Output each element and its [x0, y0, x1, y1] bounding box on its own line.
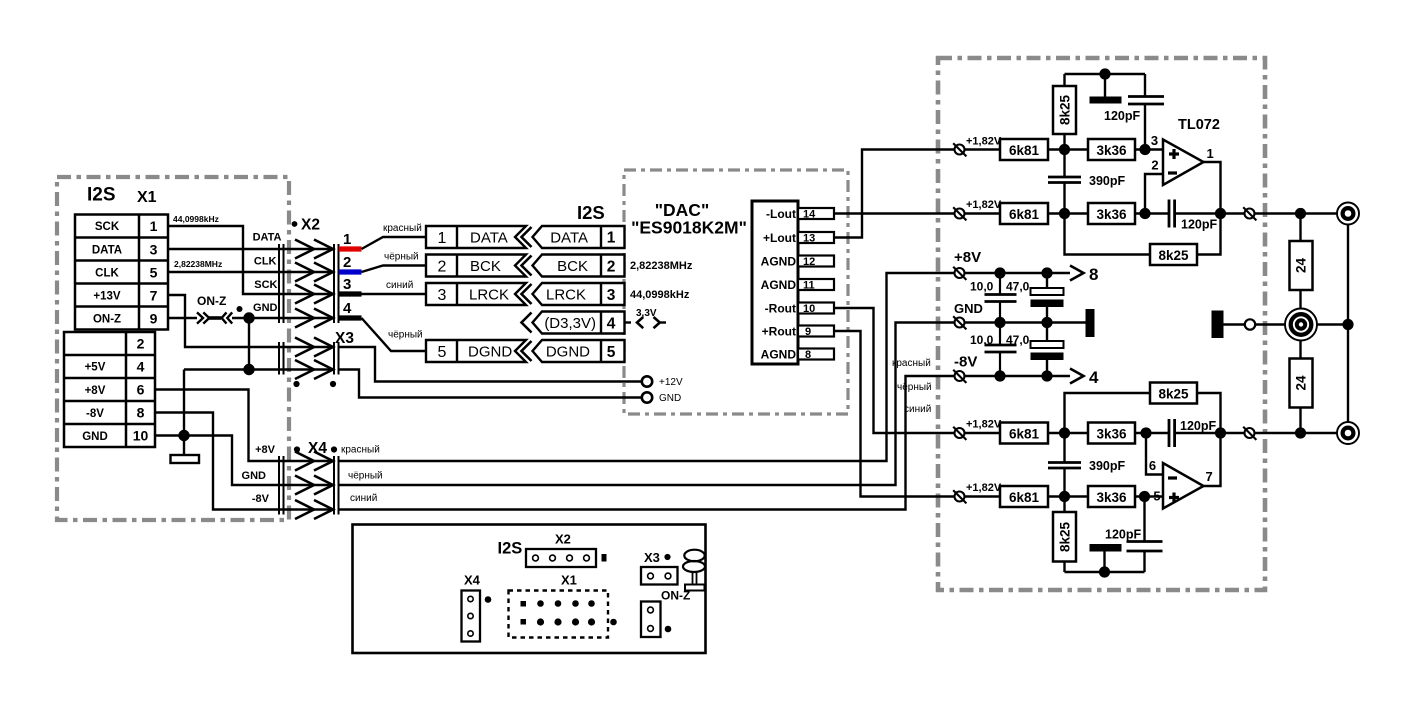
- svg-text:X3: X3: [335, 330, 354, 347]
- svg-text:2: 2: [137, 336, 145, 352]
- svg-text:3: 3: [607, 287, 616, 304]
- svg-text:+1,82V: +1,82V: [966, 419, 1002, 431]
- svg-text:GND: GND: [253, 302, 278, 314]
- svg-text:2,82238MHz: 2,82238MHz: [174, 259, 222, 269]
- svg-text:DATA: DATA: [550, 230, 588, 247]
- svg-text:I2S: I2S: [87, 185, 116, 206]
- svg-text:44,0998kHz: 44,0998kHz: [630, 289, 690, 301]
- svg-text:X4: X4: [308, 440, 327, 457]
- svg-text:2: 2: [343, 254, 351, 271]
- svg-text:24: 24: [1294, 375, 1309, 391]
- svg-text:DATA: DATA: [470, 230, 508, 247]
- svg-text:(D3,3V): (D3,3V): [544, 315, 596, 332]
- svg-text:3k36: 3k36: [1096, 490, 1127, 505]
- svg-text:390pF: 390pF: [1089, 459, 1125, 473]
- svg-text:5: 5: [1153, 489, 1160, 504]
- svg-text:+8V: +8V: [85, 385, 106, 397]
- svg-text:4: 4: [1089, 368, 1099, 387]
- svg-text:SCK: SCK: [95, 221, 120, 233]
- svg-text:120pF: 120pF: [1180, 419, 1216, 433]
- svg-text:6k81: 6k81: [1009, 143, 1040, 158]
- svg-text:1: 1: [150, 218, 158, 234]
- svg-text:6k81: 6k81: [1009, 490, 1040, 505]
- svg-text:+8V: +8V: [954, 249, 981, 266]
- svg-text:чёрный: чёрный: [348, 471, 383, 482]
- svg-text:6: 6: [1149, 458, 1156, 473]
- svg-text:чёрный: чёрный: [388, 330, 423, 341]
- svg-text:8: 8: [1089, 265, 1098, 284]
- svg-text:DATA: DATA: [92, 245, 122, 257]
- svg-text:X4: X4: [464, 573, 481, 588]
- svg-text:5: 5: [150, 265, 158, 281]
- svg-text:1: 1: [343, 231, 351, 248]
- svg-text:-Rout: -Rout: [765, 302, 796, 316]
- svg-text:3: 3: [343, 276, 351, 293]
- svg-text:5: 5: [607, 344, 616, 361]
- svg-text:AGND: AGND: [761, 348, 797, 362]
- svg-text:12: 12: [803, 256, 815, 268]
- svg-text:8: 8: [805, 349, 811, 361]
- svg-text:ON-Z: ON-Z: [93, 314, 121, 326]
- svg-text:I2S: I2S: [577, 202, 605, 223]
- svg-text:6k81: 6k81: [1009, 427, 1040, 442]
- svg-text:+13V: +13V: [93, 291, 121, 303]
- svg-text:2: 2: [438, 259, 447, 276]
- svg-text:120pF: 120pF: [1104, 109, 1140, 123]
- svg-text:-8V: -8V: [252, 493, 270, 505]
- svg-text:3: 3: [438, 287, 447, 304]
- svg-text:ON-Z: ON-Z: [661, 589, 690, 603]
- svg-text:SCK: SCK: [254, 279, 277, 291]
- svg-text:47,0: 47,0: [1006, 280, 1030, 294]
- svg-text:чёрный: чёрный: [897, 382, 932, 393]
- svg-text:+Lout: +Lout: [763, 231, 796, 245]
- svg-text:LRCK: LRCK: [469, 287, 509, 304]
- svg-text:8k25: 8k25: [1058, 521, 1073, 552]
- svg-text:24: 24: [1294, 258, 1309, 274]
- svg-text:X2: X2: [555, 532, 571, 547]
- svg-text:BCK: BCK: [470, 258, 501, 275]
- svg-text:8k25: 8k25: [1158, 248, 1189, 263]
- svg-text:3: 3: [150, 242, 158, 258]
- svg-text:+8V: +8V: [255, 444, 276, 456]
- svg-text:5: 5: [438, 344, 447, 361]
- svg-text:7: 7: [1206, 469, 1213, 484]
- svg-text:+5V: +5V: [85, 362, 106, 374]
- svg-text:синий: синий: [904, 404, 931, 415]
- svg-text:синий: синий: [386, 280, 413, 291]
- svg-text:ON-Z: ON-Z: [197, 294, 226, 308]
- svg-text:1: 1: [1207, 146, 1214, 161]
- svg-text:DATA: DATA: [253, 232, 282, 244]
- svg-text:AGND: AGND: [761, 255, 797, 269]
- svg-text:красный: красный: [892, 358, 931, 369]
- svg-text:X1: X1: [561, 573, 577, 588]
- svg-text:GND: GND: [954, 301, 983, 316]
- svg-text:синий: синий: [350, 493, 377, 504]
- svg-text:X2: X2: [301, 217, 320, 234]
- svg-text:DGND: DGND: [546, 344, 590, 361]
- svg-text:10: 10: [133, 428, 149, 444]
- svg-text:10: 10: [803, 303, 815, 315]
- svg-text:9: 9: [150, 311, 158, 327]
- svg-text:"ES9018K2M": "ES9018K2M": [631, 218, 747, 238]
- svg-text:CLK: CLK: [254, 256, 277, 268]
- svg-text:DGND: DGND: [468, 344, 512, 361]
- svg-text:4: 4: [343, 300, 352, 317]
- svg-text:AGND: AGND: [761, 278, 797, 292]
- svg-text:120pF: 120pF: [1181, 218, 1217, 232]
- svg-text:14: 14: [803, 209, 816, 221]
- svg-text:3k36: 3k36: [1096, 207, 1127, 222]
- svg-text:GND: GND: [659, 393, 681, 404]
- svg-text:1: 1: [607, 230, 616, 247]
- svg-text:6: 6: [137, 382, 145, 398]
- svg-text:9: 9: [805, 326, 811, 338]
- svg-text:красный: красный: [383, 223, 422, 234]
- svg-text:TL072: TL072: [1178, 117, 1220, 133]
- svg-text:8k25: 8k25: [1058, 94, 1073, 125]
- svg-text:13: 13: [803, 233, 815, 245]
- svg-text:2: 2: [1151, 158, 1158, 173]
- svg-text:390pF: 390pF: [1089, 174, 1125, 188]
- svg-text:+1,82V: +1,82V: [966, 199, 1002, 211]
- svg-text:+Rout: +Rout: [762, 325, 796, 339]
- svg-text:3k36: 3k36: [1096, 427, 1127, 442]
- svg-text:2,82238MHz: 2,82238MHz: [630, 260, 693, 272]
- svg-text:3,3V: 3,3V: [636, 308, 657, 319]
- svg-text:44,0998kHz: 44,0998kHz: [173, 214, 219, 224]
- svg-text:красный: красный: [341, 445, 380, 456]
- svg-text:120pF: 120pF: [1105, 528, 1141, 542]
- svg-text:11: 11: [803, 280, 815, 292]
- svg-text:1: 1: [438, 230, 447, 247]
- svg-text:X3: X3: [644, 550, 660, 565]
- svg-text:3: 3: [1151, 133, 1158, 148]
- svg-text:7: 7: [150, 288, 158, 304]
- svg-text:GND: GND: [82, 431, 108, 443]
- svg-text:+1,82V: +1,82V: [966, 482, 1002, 494]
- svg-text:3k36: 3k36: [1096, 143, 1127, 158]
- svg-text:8: 8: [137, 405, 145, 421]
- svg-text:BCK: BCK: [557, 258, 588, 275]
- svg-text:4: 4: [137, 359, 145, 375]
- svg-text:чёрный: чёрный: [384, 252, 419, 263]
- svg-text:-8V: -8V: [86, 408, 104, 420]
- svg-text:-Lout: -Lout: [766, 207, 796, 221]
- svg-text:GND: GND: [242, 470, 267, 482]
- svg-text:I2S: I2S: [498, 540, 523, 558]
- svg-text:2: 2: [607, 259, 616, 276]
- svg-text:X1: X1: [137, 189, 157, 206]
- svg-text:+12V: +12V: [659, 377, 683, 388]
- svg-text:CLK: CLK: [95, 268, 119, 280]
- svg-text:10,0: 10,0: [970, 280, 994, 294]
- svg-text:8k25: 8k25: [1158, 387, 1189, 402]
- svg-text:6k81: 6k81: [1009, 207, 1040, 222]
- svg-text:4: 4: [607, 316, 616, 333]
- svg-text:LRCK: LRCK: [546, 287, 586, 304]
- svg-text:+1,82V: +1,82V: [966, 136, 1002, 148]
- svg-text:-8V: -8V: [954, 354, 977, 371]
